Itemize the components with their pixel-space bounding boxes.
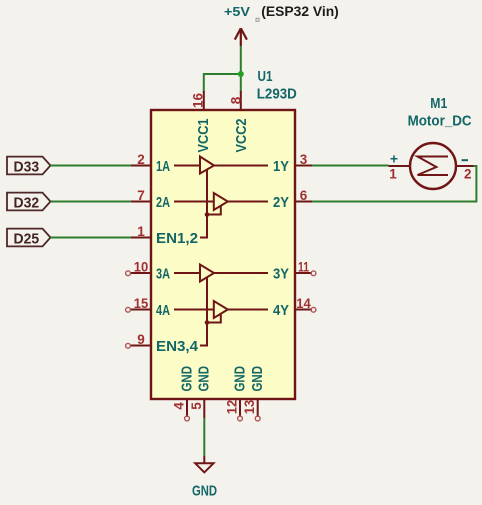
pin 14 NC circle [311, 307, 316, 312]
svg-text:1: 1 [137, 224, 145, 239]
svg-text:3A: 3A [156, 265, 170, 282]
enable line EN3,4 vertical [200, 277, 207, 346]
enable line EN1,2 vertical [200, 170, 207, 238]
enable junction dot 2 [205, 320, 210, 325]
gate1 output line [214, 165, 268, 167]
gate3 input line [174, 272, 200, 274]
pin 16 stub [203, 91, 205, 110]
svg-text:4: 4 [172, 402, 187, 410]
pin 12 stub [239, 399, 241, 417]
wire pin6 to motor - [312, 166, 476, 202]
motor - mark [462, 159, 469, 161]
pin 4 NC circle [185, 416, 190, 421]
pin 12 NC circle [238, 416, 243, 421]
svg-text:D32: D32 [14, 194, 40, 211]
svg-text:D25: D25 [14, 230, 40, 247]
svg-text:1A: 1A [156, 158, 170, 175]
gate3 output line [214, 272, 268, 274]
wire +5V down to junction and pin 8 [240, 46, 242, 92]
svg-text:11: 11 [298, 260, 309, 275]
gate1 input line [174, 165, 200, 167]
pin 11 stub [295, 272, 312, 274]
svg-text:Motor_DC: Motor_DC [408, 112, 472, 129]
pin 8 stub [240, 91, 242, 110]
svg-text:EN3,4: EN3,4 [156, 338, 199, 355]
svg-text:2Y: 2Y [273, 194, 289, 211]
svg-text:9: 9 [137, 332, 145, 347]
svg-text:GND: GND [178, 366, 195, 392]
svg-text:15: 15 [134, 296, 149, 311]
buffer gate 2 [214, 193, 228, 210]
pin 10 stub [130, 272, 151, 274]
svg-text:VCC2: VCC2 [233, 119, 250, 153]
ground symbol [195, 456, 213, 472]
buffer gate 1 [200, 157, 214, 174]
pin 15 NC circle [126, 307, 131, 312]
svg-text:2: 2 [137, 152, 145, 167]
svg-text:3Y: 3Y [273, 265, 289, 282]
svg-text:1: 1 [389, 167, 397, 182]
gate4 output line [228, 309, 268, 311]
pin 9 NC circle [126, 343, 131, 348]
pin 11 NC circle [311, 271, 316, 276]
pin 1 stub [131, 237, 151, 239]
svg-text:U1: U1 [258, 68, 273, 85]
svg-text:2: 2 [464, 167, 472, 182]
pin 15 stub [130, 309, 151, 311]
gate2 enable hook [207, 207, 221, 215]
svg-text:4Y: 4Y [273, 302, 289, 319]
svg-text:M1: M1 [430, 95, 447, 112]
svg-text:VCC1: VCC1 [195, 119, 212, 153]
gate4 enable hook [207, 315, 221, 323]
svg-text:8: 8 [228, 96, 243, 104]
gate2 output line [228, 201, 268, 203]
svg-text:+5V: +5V [224, 5, 251, 19]
wire pin3 to motor + [312, 165, 389, 167]
global label D25 [7, 229, 51, 247]
buffer gate 4 [214, 301, 228, 318]
svg-text:+: + [390, 151, 398, 167]
svg-text:2A: 2A [156, 194, 170, 211]
gate2 input line [174, 201, 214, 203]
pin 9 stub [130, 345, 151, 347]
wire pin5 to GND [203, 418, 205, 456]
svg-text:5: 5 [189, 402, 204, 410]
pin 6 stub [295, 201, 312, 203]
svg-text:3: 3 [300, 152, 308, 167]
svg-text:GND: GND [192, 482, 217, 499]
motor M1 [410, 143, 456, 189]
pin 10 NC circle [126, 271, 131, 276]
svg-text:GND: GND [231, 366, 248, 392]
pin 13 stub [257, 399, 259, 417]
svg-text:16: 16 [190, 93, 205, 108]
svg-text:D33: D33 [14, 158, 40, 175]
svg-text:1Y: 1Y [273, 158, 289, 175]
motor M glyph [418, 157, 449, 176]
enable junction dot 1 [205, 212, 210, 217]
svg-text:GND: GND [196, 366, 213, 392]
pin 5 stub [203, 399, 205, 418]
pin 7 stub [131, 201, 151, 203]
svg-text:10: 10 [134, 260, 149, 275]
pin 2 stub [131, 165, 151, 167]
wire D32 to pin 7 [51, 201, 132, 203]
svg-text:L293D: L293D [257, 86, 297, 103]
svg-text:6: 6 [300, 188, 308, 203]
svg-text:14: 14 [296, 296, 311, 311]
wire junction to pin 16 branch [204, 74, 241, 92]
buffer gate 3 [200, 265, 214, 282]
wire D25 to pin 1 [51, 237, 132, 239]
pin 13 NC circle [255, 416, 260, 421]
junction dot [238, 71, 244, 77]
pin 4 stub [186, 399, 188, 417]
pin 14 stub [295, 309, 312, 311]
wire D33 to pin 2 [51, 165, 132, 167]
motor pin 1 stub [389, 165, 411, 167]
svg-text:7: 7 [137, 188, 145, 203]
global label D32 [7, 193, 51, 211]
svg-text:13: 13 [242, 399, 257, 414]
motor pin 2 stub [456, 165, 474, 167]
svg-text:EN1,2: EN1,2 [156, 230, 198, 247]
svg-text:GND: GND [249, 366, 266, 392]
power +5V symbol [235, 28, 247, 46]
text origin marker [256, 18, 259, 21]
global label D33 [7, 157, 51, 175]
svg-text:4A: 4A [156, 302, 170, 319]
pin 3 stub [295, 165, 312, 167]
svg-text:(ESP32 Vin): (ESP32 Vin) [261, 4, 339, 19]
svg-text:12: 12 [225, 400, 240, 415]
IC U1 body [151, 110, 295, 399]
gate4 input line [174, 309, 214, 311]
